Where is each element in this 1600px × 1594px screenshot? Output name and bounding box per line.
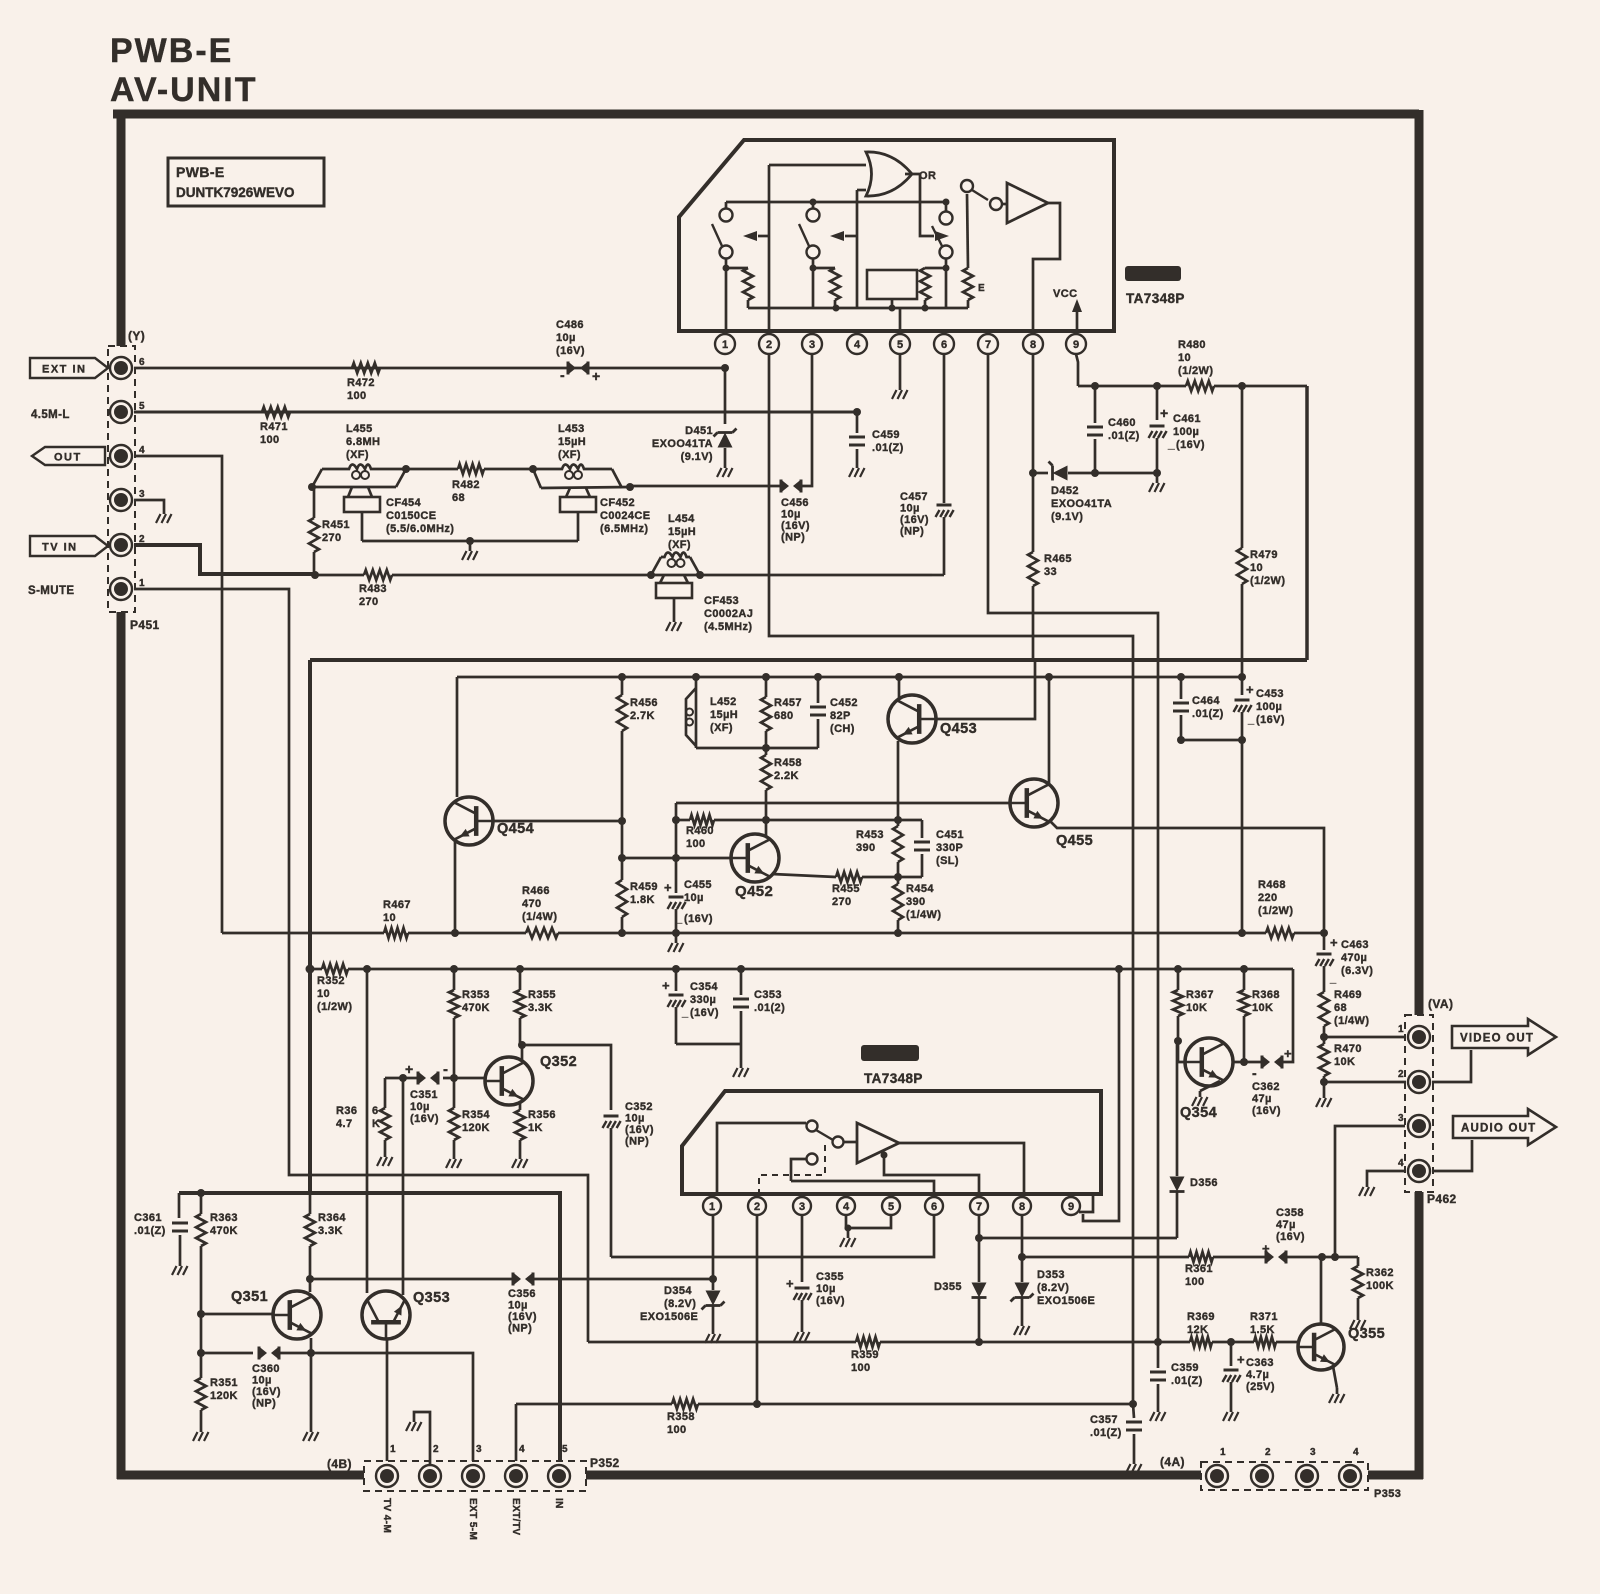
wire Q454 base line	[493, 820, 622, 823]
svg-text:(16V): (16V)	[816, 1295, 845, 1307]
IC U2 TA7348P outline	[682, 1091, 1101, 1194]
P352 pin 4	[505, 1465, 527, 1487]
svg-text:EXO1506E: EXO1506E	[640, 1311, 698, 1323]
zener D354	[706, 1291, 721, 1306]
svg-text:(16V): (16V)	[1256, 714, 1285, 726]
ground R356	[519, 1153, 522, 1159]
svg-text:EXO1506E: EXO1506E	[1037, 1295, 1095, 1307]
svg-text:L454: L454	[668, 513, 695, 525]
svg-text:47µ: 47µ	[1252, 1093, 1272, 1105]
svg-text:10µ: 10µ	[900, 503, 920, 515]
U2 part label TA7348P	[861, 1045, 919, 1061]
svg-text:_: _	[1329, 973, 1337, 985]
svg-text:.01(Z): .01(Z)	[872, 442, 904, 454]
wire Q452 base line	[622, 857, 731, 860]
svg-text:(NP): (NP)	[508, 1323, 532, 1335]
capacitor C461	[1156, 386, 1159, 420]
svg-text:(1/2W): (1/2W)	[1258, 905, 1293, 917]
svg-text:EXT/TV: EXT/TV	[510, 1498, 521, 1535]
svg-text:CF453: CF453	[704, 595, 739, 607]
svg-text:C358: C358	[1276, 1207, 1304, 1219]
svg-text:(NP): (NP)	[625, 1136, 649, 1148]
wire C352 line to U2 pin6	[611, 1214, 934, 1257]
svg-text:3.3K: 3.3K	[318, 1225, 343, 1237]
thick wire IN bus	[179, 1193, 560, 1465]
svg-text:1.8K: 1.8K	[630, 894, 655, 906]
svg-text:AUDIO OUT: AUDIO OUT	[1461, 1123, 1536, 1135]
wire AUDIO OUT shield loop	[1433, 1140, 1472, 1171]
wire Q354 base elbow	[1178, 1041, 1185, 1062]
ceramic filter CF454	[348, 487, 352, 497]
resistor R465	[1032, 473, 1035, 552]
U1 internal pot R3	[925, 267, 946, 270]
U2 pin 3	[801, 1194, 804, 1196]
board outline border	[113, 110, 1419, 119]
svg-text:+: +	[1160, 405, 1169, 421]
svg-text:C453: C453	[1256, 688, 1284, 700]
node L455 left	[308, 483, 316, 491]
svg-text:C456: C456	[781, 497, 809, 509]
svg-text:(16V): (16V)	[1276, 1231, 1305, 1243]
svg-text:10µ: 10µ	[816, 1283, 836, 1295]
wire L452/R457/C452 bottom tie	[696, 747, 818, 750]
svg-text:(16V): (16V)	[556, 345, 585, 357]
svg-text:82P: 82P	[830, 710, 851, 722]
U1 pin 1	[724, 331, 727, 334]
resistor R458	[761, 755, 771, 790]
svg-text:OR: OR	[919, 170, 936, 182]
capacitor C351	[443, 1077, 485, 1080]
svg-text:(XF): (XF)	[558, 449, 581, 461]
node C353 top	[737, 965, 745, 973]
svg-text:(5.5/6.0MHz): (5.5/6.0MHz)	[386, 523, 454, 535]
svg-text:6: 6	[931, 1201, 937, 1213]
svg-text:P462: P462	[1427, 1192, 1457, 1206]
svg-text:R354: R354	[462, 1109, 490, 1121]
resistor R472	[352, 363, 380, 373]
svg-text:6: 6	[139, 357, 145, 368]
svg-text:1: 1	[1220, 1447, 1226, 1458]
node L453 right	[626, 483, 634, 491]
svg-text:(XF): (XF)	[668, 539, 691, 551]
svg-text:R479: R479	[1250, 549, 1278, 561]
wire Q454 emitter	[454, 841, 457, 933]
svg-text:PWB-E: PWB-E	[176, 164, 225, 180]
U2 internal pin6 wire	[791, 1181, 934, 1194]
P462 pin 1	[1408, 1026, 1430, 1048]
wire Q352 collector	[521, 1045, 524, 1061]
rail right portion	[1119, 968, 1293, 971]
capacitor C460	[1094, 386, 1097, 423]
svg-text:1: 1	[709, 1201, 715, 1213]
svg-text:R471: R471	[260, 421, 288, 433]
node R363 top	[197, 1189, 205, 1197]
wire P352 pin2 ground	[414, 1412, 430, 1464]
connector P353	[1201, 1462, 1368, 1490]
svg-text:C0150CE: C0150CE	[386, 510, 437, 522]
node R459 bottom	[618, 929, 626, 937]
U2 internal switch	[807, 1121, 818, 1132]
U1 internal series switch	[961, 180, 973, 192]
svg-text:(9.1V): (9.1V)	[681, 451, 713, 463]
svg-text:Q355: Q355	[1348, 1326, 1385, 1342]
wire EXT IN line	[134, 367, 725, 370]
inductor L453	[541, 487, 630, 488]
svg-text:470K: 470K	[462, 1002, 490, 1014]
node Q454 emitter	[451, 929, 459, 937]
U2 internal input wire	[717, 1123, 806, 1194]
wire OUT run	[134, 456, 222, 933]
svg-text:(1/2W): (1/2W)	[1178, 365, 1213, 377]
P451 pin 4	[110, 445, 132, 467]
U2 pin 7	[978, 1194, 981, 1196]
svg-text:D355: D355	[934, 1281, 962, 1293]
resistor R466	[455, 932, 526, 935]
svg-text:_: _	[681, 1007, 689, 1019]
U1 internal bottom rail	[748, 307, 968, 310]
wire CF ground bus	[362, 540, 578, 543]
capacitor C459	[856, 412, 859, 433]
svg-text:330µ: 330µ	[690, 994, 716, 1006]
connector P462	[1405, 1015, 1433, 1192]
ground C461	[1156, 473, 1159, 477]
wire Q455 emitter	[1051, 822, 1324, 933]
capacitor C354	[675, 969, 678, 991]
wire Q353 collector to rail	[366, 969, 369, 1293]
svg-text:EXOO41TA: EXOO41TA	[1051, 498, 1112, 510]
svg-text:4: 4	[1398, 1158, 1404, 1169]
ground D353	[1021, 1320, 1024, 1326]
capacitor C356 series	[513, 1273, 521, 1286]
wire U2 pin3 down	[801, 1214, 804, 1282]
svg-text:R483: R483	[359, 583, 387, 595]
svg-text:120K: 120K	[210, 1390, 238, 1402]
resistor R353	[453, 969, 456, 990]
wire pin6 to L454 line	[932, 574, 944, 577]
node C461 top	[1153, 382, 1161, 390]
svg-text:-: -	[1252, 1065, 1257, 1081]
svg-text:100: 100	[347, 390, 367, 402]
resistor R368	[1240, 965, 1248, 973]
zener D451	[724, 368, 727, 424]
connector P352	[364, 1461, 586, 1491]
ground C357	[1133, 1458, 1136, 1464]
svg-text:2.2K: 2.2K	[774, 770, 799, 782]
svg-text:10: 10	[1250, 562, 1263, 574]
svg-text:.01(Z): .01(Z)	[1090, 1427, 1122, 1439]
wire Q452 collector	[765, 820, 768, 836]
capacitor C456 series	[781, 480, 789, 493]
resistor R456	[618, 673, 626, 681]
wire Q352 emitter	[519, 1101, 522, 1110]
svg-text:R467: R467	[383, 899, 411, 911]
wire U2 pin8 down	[1021, 1214, 1024, 1257]
resistor R351	[197, 1349, 205, 1357]
wire video line y486 to C456	[630, 485, 784, 488]
resistor R459	[617, 880, 627, 917]
ceramic filter CF453	[660, 575, 664, 583]
svg-text:(SL): (SL)	[936, 855, 959, 867]
capacitor C457	[943, 354, 946, 503]
svg-text:6: 6	[941, 339, 947, 351]
svg-text:(4B): (4B)	[327, 1457, 352, 1471]
svg-text:+: +	[1237, 1352, 1245, 1367]
svg-text:+: +	[1284, 1046, 1292, 1061]
P451 pin 5	[110, 401, 132, 423]
svg-text:5: 5	[139, 401, 145, 412]
svg-text:P451: P451	[130, 618, 160, 632]
U1 internal switch S1	[725, 202, 728, 209]
resistor R355	[519, 969, 522, 990]
node R355 top	[516, 965, 524, 973]
transistor Q353 (base down)	[362, 1291, 410, 1339]
svg-text:+: +	[664, 880, 672, 895]
svg-text:8: 8	[1030, 339, 1036, 351]
resistor R469	[1319, 992, 1329, 1026]
svg-text:C455: C455	[684, 879, 712, 891]
U1 pin 6	[943, 331, 946, 334]
U2 pin 6	[933, 1194, 936, 1196]
wire U1 pin2 down to EXT/TV line	[769, 354, 1133, 1404]
svg-text:100µ: 100µ	[1256, 701, 1282, 713]
svg-text:R351: R351	[210, 1377, 238, 1389]
wire 4.5M-L line	[134, 411, 857, 414]
svg-text:R353: R353	[462, 989, 490, 1001]
U1 pin 9	[1075, 331, 1078, 334]
svg-text:330P: 330P	[936, 842, 963, 854]
svg-text:3.3K: 3.3K	[528, 1002, 553, 1014]
U1 internal wiper arrow 2	[856, 190, 859, 308]
wire R358 line	[515, 1404, 518, 1465]
svg-text:15µH: 15µH	[668, 526, 696, 538]
svg-text:R466: R466	[522, 885, 550, 897]
svg-text:(1/4W): (1/4W)	[1334, 1015, 1369, 1027]
U1 internal box	[867, 270, 917, 299]
svg-text:.01(Z): .01(Z)	[1171, 1375, 1203, 1387]
P353 pin 2	[1251, 1465, 1273, 1487]
capacitor C352	[604, 1115, 619, 1118]
svg-text:R358: R358	[667, 1411, 695, 1423]
wire Q453 collector	[898, 677, 901, 698]
svg-text:TV IN: TV IN	[42, 542, 78, 554]
svg-text:(16V): (16V)	[252, 1386, 281, 1398]
wire rail to U2 pin9	[1083, 969, 1119, 1221]
wire U1 pin9 to supply line	[1076, 354, 1078, 386]
P352 pin 3	[462, 1465, 484, 1487]
svg-text:R359: R359	[851, 1349, 879, 1361]
U1 pin 7	[987, 331, 990, 334]
svg-text:P353: P353	[1374, 1488, 1401, 1500]
svg-text:TA7348P: TA7348P	[864, 1071, 923, 1086]
svg-text:1.5K: 1.5K	[1250, 1324, 1275, 1336]
wire TV IN thick	[134, 545, 315, 574]
svg-text:(16V): (16V)	[781, 520, 810, 532]
svg-text:R356: R356	[528, 1109, 556, 1121]
capacitor C357	[1133, 1404, 1134, 1418]
svg-text:C357: C357	[1090, 1414, 1118, 1426]
svg-text:_: _	[675, 913, 683, 925]
svg-text:5: 5	[897, 339, 903, 351]
svg-text:(16V): (16V)	[900, 514, 929, 526]
P462 pin 2	[1408, 1071, 1430, 1093]
svg-text:PWB-E: PWB-E	[110, 32, 233, 70]
svg-text:(6.5MHz): (6.5MHz)	[600, 523, 648, 535]
emitter rail wire	[222, 932, 384, 935]
svg-text:C363: C363	[1246, 1357, 1274, 1369]
U1 internal amp triangle	[1007, 183, 1048, 223]
resistor R453	[893, 826, 903, 862]
capacitor C486	[568, 362, 576, 375]
U1 internal OR output to switch 3	[905, 174, 934, 236]
P353 pin 4	[1339, 1465, 1361, 1487]
transistor Q355	[1298, 1324, 1344, 1370]
wire Q455 collector	[1048, 677, 1051, 784]
P451 pin 3	[110, 489, 132, 511]
svg-text:100K: 100K	[1366, 1280, 1394, 1292]
U1 part label TA7348P	[1125, 266, 1181, 281]
ground CF453	[673, 616, 676, 622]
wire C362 up to rail	[1282, 969, 1293, 1062]
svg-text:(8.2V): (8.2V)	[1037, 1282, 1069, 1294]
svg-text:10K: 10K	[1334, 1056, 1355, 1068]
resistor R479	[1238, 382, 1246, 390]
svg-text:3: 3	[799, 1201, 805, 1213]
svg-text:C356: C356	[508, 1288, 536, 1300]
node C460 top	[1091, 382, 1099, 390]
wire U1 pin7 down to mute line	[988, 354, 1158, 1342]
wire U2 pin2 down	[756, 1214, 759, 1404]
wire C456 to U1 pin3	[801, 354, 812, 486]
ground Q355	[1336, 1388, 1339, 1394]
svg-text:C361: C361	[134, 1212, 162, 1224]
svg-text:(16V): (16V)	[690, 1007, 719, 1019]
svg-text:220: 220	[1258, 892, 1278, 904]
svg-text:R367: R367	[1186, 989, 1214, 1001]
wire C354/C353 bottom	[676, 1043, 741, 1046]
svg-text:10: 10	[317, 988, 330, 1000]
svg-text:10K: 10K	[1252, 1002, 1273, 1014]
resistor R468	[1242, 932, 1266, 935]
svg-text:R371: R371	[1250, 1311, 1278, 1323]
wire U2 pin7 down	[978, 1214, 981, 1238]
svg-text:R482: R482	[452, 479, 480, 491]
capacitor C359	[1157, 1342, 1160, 1368]
resistor R364	[309, 1193, 312, 1214]
svg-text:470µ: 470µ	[1341, 952, 1367, 964]
svg-text:100: 100	[1185, 1276, 1205, 1288]
wire U2 pins4+5 ground	[846, 1214, 891, 1228]
svg-text:(CH): (CH)	[830, 723, 855, 735]
U1 internal OR inputs	[769, 164, 866, 167]
U1 internal switch S2	[812, 202, 815, 209]
resistor R356	[515, 1110, 525, 1140]
svg-text:3: 3	[1398, 1113, 1404, 1124]
svg-text:(16V): (16V)	[410, 1113, 439, 1125]
U1 pin 5	[899, 331, 902, 334]
U1 pin 4	[856, 331, 859, 334]
resistor R470	[1323, 1037, 1326, 1044]
svg-text:R455: R455	[832, 883, 860, 895]
U2 internal amp triangle	[857, 1123, 899, 1163]
ground R366	[384, 1151, 387, 1157]
svg-text:R480: R480	[1178, 339, 1206, 351]
node C453 line bottom	[1238, 929, 1246, 937]
U1 internal rail	[726, 201, 946, 204]
svg-text:(VA): (VA)	[1428, 997, 1453, 1011]
svg-text:(1/2W): (1/2W)	[317, 1001, 352, 1013]
svg-text:C464: C464	[1192, 695, 1220, 707]
svg-text:DUNTK7926WEVO: DUNTK7926WEVO	[176, 185, 295, 200]
wire Q453 emitter down	[897, 741, 900, 820]
wire EXT audio from P352 pin3	[311, 1353, 473, 1465]
svg-text:15µH: 15µH	[710, 709, 738, 721]
svg-text:8: 8	[1019, 1201, 1025, 1213]
U2 pin 4	[845, 1194, 848, 1196]
svg-text:+: +	[786, 1276, 794, 1291]
wire pin7 line to D356	[979, 1237, 1177, 1240]
wire collector line to R453	[766, 819, 898, 822]
wire audio to P462 pin3	[1335, 1126, 1406, 1257]
wire Q353 base down to P352 pin1	[386, 1339, 389, 1465]
svg-text:(4.5MHz): (4.5MHz)	[704, 621, 752, 633]
svg-text:.01(Z): .01(Z)	[1192, 708, 1224, 720]
svg-text:L452: L452	[710, 696, 737, 708]
svg-text:270: 270	[322, 532, 342, 544]
wire P451 pin3 to ground	[134, 500, 164, 508]
svg-text:C0024CE: C0024CE	[600, 510, 651, 522]
svg-text:(16V): (16V)	[625, 1124, 654, 1136]
svg-text:7: 7	[976, 1201, 982, 1213]
svg-text:D452: D452	[1051, 485, 1079, 497]
svg-text:(1/2W): (1/2W)	[1250, 575, 1285, 587]
flag OUT	[32, 447, 105, 465]
svg-text:+: +	[405, 1061, 414, 1077]
resistor R454	[893, 884, 903, 920]
node C463 top	[1320, 929, 1328, 937]
ground R362	[1357, 1314, 1360, 1320]
P352 pin 5	[548, 1465, 570, 1487]
wire R470 to P462 pin2	[1324, 1081, 1406, 1084]
U2 internal input contact	[807, 1154, 818, 1165]
node pin4 junction	[853, 408, 861, 416]
svg-text:4.5M-L: 4.5M-L	[31, 409, 70, 421]
wire Q354 emitter to ground	[1200, 1081, 1220, 1091]
transistor Q351	[273, 1291, 321, 1339]
supply rail 2	[310, 968, 322, 971]
resistor R367	[1174, 965, 1182, 973]
capacitor C464	[1177, 673, 1185, 681]
flag VIDEO OUT	[1452, 1019, 1556, 1055]
svg-text:VCC: VCC	[1053, 288, 1077, 300]
svg-text:470K: 470K	[210, 1225, 238, 1237]
svg-text:AV-UNIT: AV-UNIT	[110, 71, 257, 109]
transistor Q454	[445, 797, 493, 845]
inductor L454	[647, 571, 655, 579]
svg-text:(NP): (NP)	[900, 526, 924, 538]
svg-text:100: 100	[667, 1424, 687, 1436]
svg-text:2: 2	[433, 1444, 439, 1455]
svg-text:10µ: 10µ	[410, 1101, 430, 1113]
resistor R460	[676, 819, 690, 822]
svg-text:C486: C486	[556, 319, 584, 331]
svg-text:R361: R361	[1185, 1263, 1213, 1275]
svg-text:470: 470	[522, 898, 542, 910]
node pin1 junction	[721, 364, 729, 372]
resistor R467	[384, 928, 408, 938]
svg-text:Q454: Q454	[497, 821, 534, 837]
svg-text:R470: R470	[1334, 1043, 1362, 1055]
wire Q455 base feed riser	[675, 803, 678, 858]
